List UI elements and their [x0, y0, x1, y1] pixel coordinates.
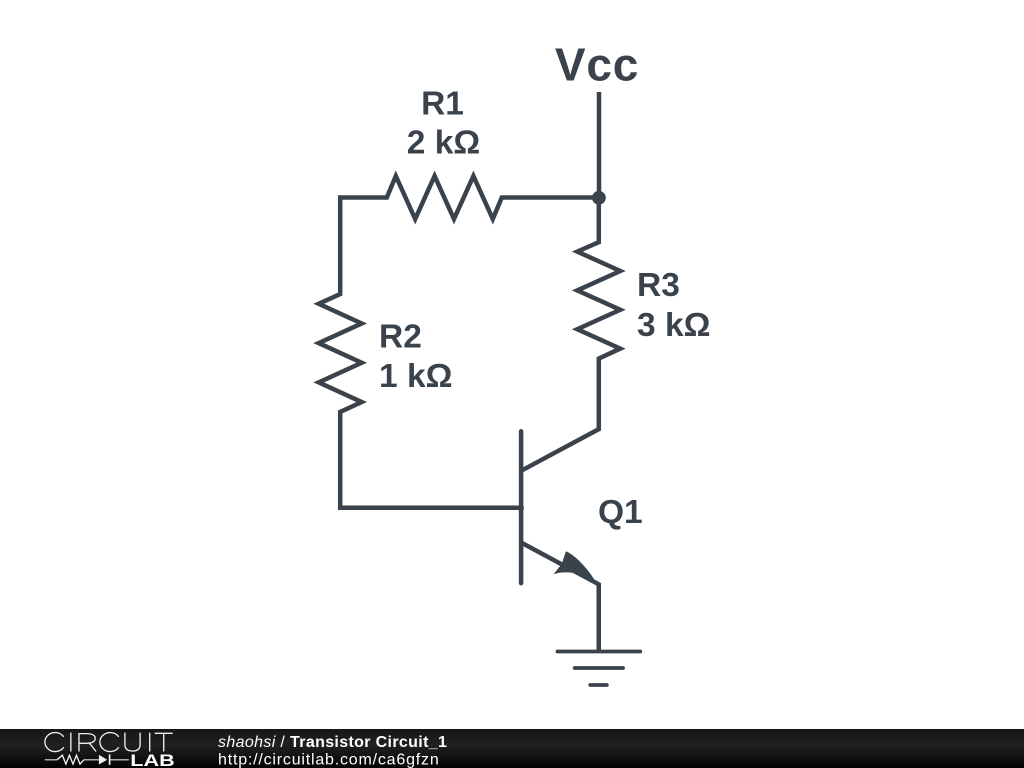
svg-text:Vcc: Vcc [555, 38, 639, 90]
svg-text:R3: R3 [637, 267, 680, 304]
svg-text:http://circuitlab.com/ca6gfzn: http://circuitlab.com/ca6gfzn [218, 752, 440, 768]
svg-text:1 kΩ: 1 kΩ [379, 358, 452, 395]
svg-text:LAB: LAB [130, 751, 175, 768]
svg-text:R1: R1 [421, 86, 464, 123]
svg-text:R2: R2 [379, 318, 422, 355]
svg-text:Q1: Q1 [598, 494, 643, 531]
svg-text:shaohsi / Transistor Circuit_1: shaohsi / Transistor Circuit_1 [218, 734, 447, 751]
svg-text:2 kΩ: 2 kΩ [407, 125, 480, 162]
svg-text:3 kΩ: 3 kΩ [637, 307, 710, 344]
